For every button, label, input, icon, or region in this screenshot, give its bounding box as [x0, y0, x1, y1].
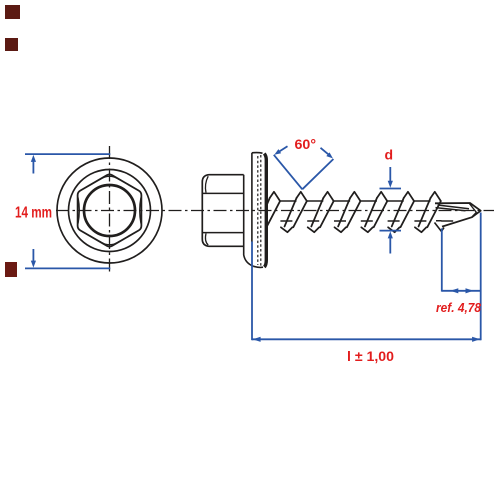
registration square left-middle [5, 262, 17, 277]
svg-text:ref. 4,78: ref. 4,78 [436, 300, 482, 315]
front view: hexagon face chamfer arcs left/right [78, 198, 141, 224]
svg-text:d: d [385, 147, 394, 163]
front view: hexagon vertex cap arc top [100, 176, 120, 180]
drill point flute line A [438, 205, 470, 209]
registration square upper-left [5, 38, 18, 51]
dimension 60deg right leader arrow [321, 148, 330, 156]
dimension 14mm extension bottom [25, 267, 110, 269]
dimension length line [252, 338, 481, 340]
dimension d arrow down [389, 167, 391, 183]
dimension ref extension right long [480, 213, 482, 341]
dimension d extension bottom [380, 230, 402, 232]
dimension 14mm extension top [25, 153, 110, 155]
dimension d extension top [380, 188, 402, 190]
dimension ref arrows [450, 288, 458, 293]
side view: washer serration texture [257, 156, 259, 265]
front view: inner circle shank bold [84, 185, 135, 236]
dimension d arrow up [389, 236, 391, 253]
drill point flute line B [436, 208, 466, 211]
dimension 60deg left leader arrow [278, 146, 288, 152]
side view: head chamfer arc upper [205, 176, 208, 192]
thread root line bottom [280, 220, 453, 222]
front view: hexagon head [78, 174, 142, 246]
dimension 14mm arrow up [32, 160, 34, 174]
side view: flange right edge thick [264, 154, 266, 268]
dimension 14mm arrow down [32, 249, 34, 263]
front view: washer outer circle [57, 158, 162, 263]
horizontal centerline [56, 210, 494, 212]
front view: hexagon vertex cap arc bottom [100, 241, 120, 245]
side view: head chamfer arc lower [205, 233, 208, 245]
vertical centerline front view [109, 146, 111, 275]
side view: hex head face line lower [203, 232, 244, 234]
thread last partial crest [435, 223, 445, 232]
dimension ref line [442, 290, 481, 292]
dimension length arrow left [253, 337, 261, 342]
side view: flange top edge [252, 152, 263, 155]
dimension 60deg left leg [274, 155, 303, 190]
drill point tip facet upper [469, 203, 477, 213]
drill point tip facet lower [472, 212, 477, 217]
svg-text:l ± 1,00: l ± 1,00 [347, 348, 394, 364]
front view: flange circle [69, 170, 151, 252]
dimension 60deg right leg [302, 159, 333, 189]
svg-text:14 mm: 14 mm [15, 205, 52, 222]
side view: flange bottom edge [254, 266, 264, 267]
drill point outline [435, 203, 481, 227]
side view: hex head face line upper [203, 192, 244, 194]
dimension ref extension left [441, 228, 443, 291]
registration square top-left [5, 5, 20, 19]
dimension length extension left [251, 242, 253, 341]
side view: flange outer lip [251, 153, 253, 242]
dimension length arrow right [472, 337, 480, 342]
side view: flange inner face [244, 175, 254, 267]
thread root line top [280, 200, 457, 202]
side view: hex head outline [202, 175, 243, 247]
svg-text:60°: 60° [295, 136, 317, 152]
thread helix turns [258, 192, 441, 232]
